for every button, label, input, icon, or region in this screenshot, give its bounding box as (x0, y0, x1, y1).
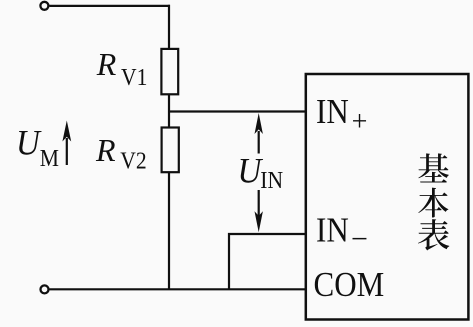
svg-text:+: + (352, 107, 368, 138)
svg-text:V2: V2 (120, 146, 146, 174)
wire RV2 to bottom rail (168, 172, 170, 290)
svg-text:V1: V1 (121, 63, 147, 91)
terminal J2 bottom-left (41, 285, 49, 293)
svg-text:IN: IN (316, 93, 349, 131)
svg-text:R: R (95, 132, 116, 168)
wire top vertical into RV1 (168, 5, 170, 50)
char 基 (418, 153, 448, 182)
svg-text:IN: IN (316, 212, 349, 250)
svg-text:−: − (351, 223, 368, 256)
arrow UIN up (top) (255, 113, 263, 154)
label UM (16, 122, 59, 171)
wire RV1 to RV2 (168, 94, 170, 128)
wire IN- branch (229, 234, 306, 289)
resistor RV2 (162, 128, 179, 173)
label RV1 (96, 46, 148, 90)
label UIN (238, 150, 284, 193)
char 本 (418, 188, 448, 218)
arrow UIN down (bottom) (255, 190, 263, 232)
wire node to IN+ (169, 110, 306, 112)
label RV2 (95, 132, 147, 174)
svg-text:COM: COM (314, 266, 385, 304)
svg-text:R: R (96, 46, 117, 82)
svg-text:M: M (40, 144, 59, 172)
meter box (基本表) (306, 74, 469, 320)
svg-text:U: U (16, 122, 42, 163)
char 表 (418, 219, 449, 250)
svg-text:IN: IN (260, 166, 283, 194)
arrow UM up (62, 121, 71, 166)
terminal J1 top-left (40, 2, 48, 10)
pin label IN- (316, 212, 368, 256)
wire top rail (50, 5, 171, 7)
wire bottom rail to COM (50, 288, 307, 290)
pin label IN+ (316, 93, 367, 137)
resistor RV1 (161, 49, 178, 94)
label 基本表 (vertical) (418, 153, 449, 250)
